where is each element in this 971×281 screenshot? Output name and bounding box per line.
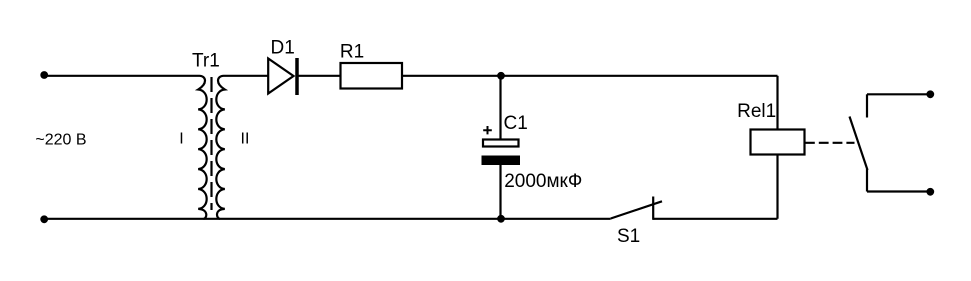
wire diode to resistor bbox=[299, 75, 341, 77]
terminal top-left bbox=[40, 71, 48, 79]
relay Rel1 coil bbox=[751, 130, 805, 155]
resistor R1 body bbox=[341, 63, 403, 89]
node junction bottom bbox=[497, 215, 505, 223]
transformer Tr1 core (dashed) bbox=[210, 77, 212, 210]
wire top-left to transformer primary bbox=[44, 75, 200, 77]
wire bottom-left to transformer primary bbox=[44, 218, 204, 220]
terminal top-right bbox=[926, 90, 934, 98]
svg-text:Rel1: Rel1 bbox=[737, 101, 776, 122]
svg-text:~220 В: ~220 В bbox=[35, 132, 86, 149]
switch S1 right contact bbox=[652, 197, 654, 220]
diode D1 cathode bar bbox=[295, 58, 299, 95]
wire relay coil down to bottom rail bbox=[776, 155, 778, 219]
svg-text:I: I bbox=[179, 130, 183, 147]
svg-text:II: II bbox=[241, 130, 250, 147]
svg-text:Tr1: Tr1 bbox=[192, 51, 220, 72]
diode D1 anode triangle bbox=[268, 59, 293, 94]
transformer Tr1 primary winding I bbox=[198, 76, 206, 219]
svg-text:2000мкФ: 2000мкФ bbox=[504, 171, 582, 192]
transformer Tr1 secondary winding II bbox=[216, 76, 224, 219]
relay contact fixed terminal top bbox=[866, 94, 868, 117]
terminal bottom-left bbox=[40, 215, 48, 223]
relay contact blade bbox=[850, 117, 868, 171]
wire capacitor to bottom rail bbox=[499, 165, 501, 219]
switch S1 blade bbox=[611, 201, 662, 218]
svg-text:D1: D1 bbox=[271, 37, 295, 58]
node junction top (cap branch) bbox=[497, 72, 505, 80]
svg-text:C1: C1 bbox=[504, 113, 528, 134]
wire switch to relay corner (bottom) bbox=[653, 218, 777, 220]
wire bottom rail to switch bbox=[204, 218, 611, 220]
wire transformer secondary to diode bbox=[224, 75, 268, 77]
wire contact top to terminal bbox=[867, 93, 930, 95]
wire top rail down to relay coil bbox=[776, 76, 778, 130]
terminal bottom-right bbox=[926, 188, 934, 196]
capacitor C1 positive plate bbox=[483, 140, 519, 147]
wire junction down to capacitor bbox=[499, 76, 501, 139]
svg-text:R1: R1 bbox=[340, 41, 364, 62]
wire resistor to relay corner (top rail) bbox=[403, 75, 778, 77]
dashed mechanical link relay to contact bbox=[805, 142, 855, 144]
wire contact bottom to terminal bbox=[867, 190, 930, 192]
wire contact bottom vertical bbox=[866, 169, 868, 192]
capacitor plus sign bbox=[483, 126, 492, 134]
capacitor C1 negative plate bbox=[482, 156, 521, 166]
svg-text:S1: S1 bbox=[617, 226, 640, 247]
